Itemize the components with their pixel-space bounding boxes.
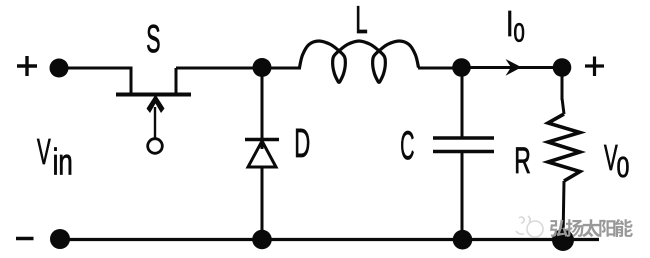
wire capacitor top <box>461 68 464 138</box>
svg-text:V: V <box>37 132 51 173</box>
capacitor C plates <box>433 138 494 152</box>
node switch/diode/inductor junction <box>253 58 272 77</box>
watermark text <box>550 219 633 237</box>
svg-text:D: D <box>294 120 310 166</box>
bottom rail wire <box>60 238 599 241</box>
wire switch to node <box>176 67 262 70</box>
svg-text:in: in <box>53 141 73 183</box>
wire coil to node <box>418 67 462 70</box>
inductor L coil <box>300 41 419 82</box>
wire diode bottom <box>261 167 264 240</box>
svg-text:0: 0 <box>514 18 525 47</box>
plus sign input <box>17 56 37 76</box>
node diode bottom junction <box>252 230 272 250</box>
wire diode top <box>261 68 264 149</box>
node input+ terminal <box>50 59 69 78</box>
plus sign output <box>585 57 604 77</box>
transistor gate arrowhead <box>147 95 165 114</box>
resistor R zigzag <box>548 114 580 181</box>
svg-text:L: L <box>355 0 367 42</box>
wire node to output node <box>462 66 562 69</box>
node inductor/capacitor junction <box>452 58 471 77</box>
wire top-left <box>59 67 131 70</box>
node input- terminal <box>50 229 70 249</box>
current arrow I0 <box>506 59 522 76</box>
svg-text:C: C <box>400 122 414 168</box>
watermark logo <box>516 216 543 237</box>
node output+ <box>553 58 572 77</box>
minus sign input <box>16 237 34 240</box>
diode D <box>245 140 279 168</box>
wire capacitor bottom <box>461 152 464 241</box>
wire node to coil <box>262 67 301 70</box>
node resistor bottom junction <box>552 229 574 251</box>
svg-text:R: R <box>514 139 531 181</box>
transistor S (switch) <box>116 67 191 154</box>
svg-text:I: I <box>506 3 514 44</box>
node capacitor bottom junction <box>453 230 473 250</box>
svg-text:0: 0 <box>617 150 630 183</box>
svg-text:S: S <box>146 17 160 60</box>
wire output node to resistor <box>561 68 564 101</box>
wire resistor bottom <box>563 181 564 240</box>
